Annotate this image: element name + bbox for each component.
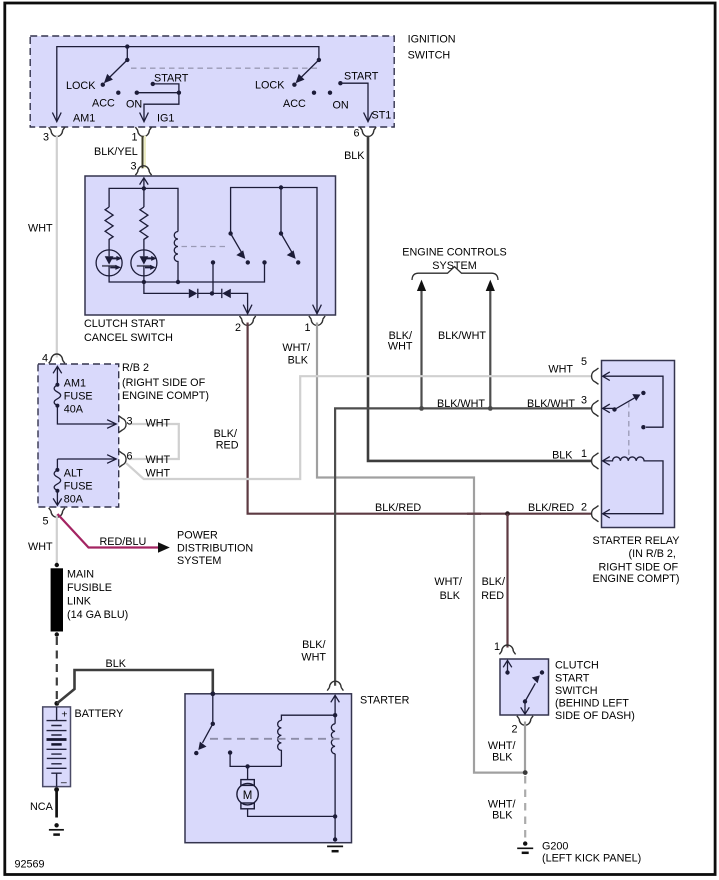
node LOCK contact left — [101, 83, 105, 87]
svg-text:G200: G200 — [542, 840, 568, 852]
node WHT/BLK junction — [523, 770, 528, 775]
wire AM1 feed and top bus — [57, 47, 319, 122]
wire START to ST1 — [340, 83, 368, 121]
svg-text:3: 3 — [127, 415, 133, 427]
node fusible link bottom — [55, 632, 59, 636]
wire top-right bus of clutch cancel — [231, 188, 317, 314]
wire battery negative to ground — [55, 790, 58, 818]
relay terminal 2 arrow — [603, 509, 610, 518]
svg-text:BATTERY: BATTERY — [75, 708, 124, 720]
wire stub to diode bus — [212, 262, 214, 293]
svg-text:6: 6 — [127, 450, 133, 462]
svg-text:4: 4 — [42, 352, 48, 364]
arrowhead right arm — [296, 74, 305, 83]
wire BLK battery to starter — [57, 670, 213, 703]
arrow right terminal 6 R/B2 — [107, 455, 116, 464]
arrow ST1 down — [364, 113, 373, 122]
svg-text:RED/BLU: RED/BLU — [100, 536, 147, 548]
svg-text:WHT: WHT — [301, 651, 326, 663]
svg-text:1: 1 — [494, 641, 500, 653]
svg-text:RED: RED — [216, 440, 239, 452]
switch arm left (to LOCK) — [109, 60, 128, 79]
node motor junction — [245, 764, 249, 768]
switch1 arm — [231, 234, 242, 253]
wire pivot drop left switch — [126, 47, 128, 60]
node relay contact upper — [641, 391, 645, 395]
LED 1 circle — [96, 250, 122, 276]
LED 2 light arrows — [145, 258, 152, 267]
relay terminal 5 cup — [592, 368, 599, 384]
svg-text:BLK: BLK — [492, 810, 513, 822]
svg-text:LOCK: LOCK — [255, 80, 285, 92]
arrow up engine controls left — [417, 280, 426, 291]
node START left — [151, 82, 155, 86]
wire top horizontal to pull-in coil — [281, 715, 335, 720]
svg-text:BLK/YEL: BLK/YEL — [94, 146, 138, 158]
clutch start switch terminal 1 cup — [499, 645, 515, 654]
wire BLK/RED from clutch cancel term2 to relay term2 — [248, 323, 592, 514]
svg-text:IG1: IG1 — [157, 113, 174, 125]
svg-text:(RIGHT SIDE OF: (RIGHT SIDE OF — [122, 377, 206, 389]
svg-text:3: 3 — [43, 132, 49, 144]
svg-text:BLK/RED: BLK/RED — [528, 502, 574, 514]
node BLK/WHT right junction — [488, 406, 493, 411]
svg-text:(14 GA BLU): (14 GA BLU) — [67, 609, 128, 621]
motor brush top — [241, 780, 254, 786]
svg-text:92569: 92569 — [15, 859, 45, 871]
svg-text:R/B 2: R/B 2 — [122, 362, 149, 374]
node pivot left — [125, 58, 129, 62]
bus lower (LED commons) — [109, 262, 264, 282]
relay coil — [603, 457, 663, 514]
motor feed — [247, 766, 249, 779]
svg-text:WHT: WHT — [388, 340, 413, 352]
starter box — [185, 694, 352, 843]
wire RED/BLU to power distribution — [58, 514, 159, 548]
relay terminal 1 arrow — [603, 457, 610, 466]
battery box — [43, 707, 71, 787]
starter switch arm — [203, 724, 213, 743]
fuse AM1 element — [55, 383, 59, 387]
resistor R center zigzag — [140, 207, 148, 250]
svg-text:SWITCH: SWITCH — [555, 685, 598, 697]
terminal 3 ignition cup — [49, 127, 65, 136]
svg-text:BLK: BLK — [552, 449, 573, 461]
svg-text:IGNITION: IGNITION — [408, 33, 456, 45]
svg-text:ST1: ST1 — [372, 110, 392, 122]
svg-text:2: 2 — [511, 724, 517, 736]
svg-text:ACC: ACC — [92, 98, 115, 110]
svg-text:3: 3 — [130, 161, 136, 173]
wire AM1 fuse to terminal 3 — [57, 406, 115, 424]
brace engine controls — [412, 267, 498, 280]
terminal 6 R/B2 cup — [119, 451, 126, 467]
wire WHT/BLK from clutch cancel term1 — [317, 323, 523, 773]
arrow up inside R/B2 — [53, 366, 62, 384]
arrowhead starter arm — [198, 742, 206, 750]
motor M circle — [237, 784, 258, 805]
wire starter switch feed — [212, 694, 214, 724]
svg-text:BLK/: BLK/ — [214, 428, 237, 440]
node battery negative — [54, 787, 59, 792]
wire diode bus — [144, 282, 248, 313]
node switch2 contact — [296, 260, 300, 264]
node ON junction — [177, 91, 181, 95]
node BLK/WHT left junction — [419, 406, 424, 411]
clutch start switch terminal 2 cup — [517, 716, 533, 725]
node starter top junction — [333, 713, 337, 717]
svg-text:BLK/WHT: BLK/WHT — [438, 330, 486, 342]
wire drop to switch2 pivot — [280, 188, 282, 234]
svg-text:SIDE OF DASH): SIDE OF DASH) — [555, 710, 635, 722]
switch arm right (to LOCK) — [300, 60, 319, 79]
terminal 1 ignition cup — [135, 127, 151, 136]
starter hold-in coil — [331, 724, 335, 754]
svg-text:BLK/RED: BLK/RED — [375, 502, 421, 514]
node clutch start contact upper — [540, 670, 544, 674]
terminal 3 clutch start cancel switch cup — [135, 166, 151, 175]
battery plates — [56, 707, 58, 787]
relay terminal 5 arrow — [603, 372, 610, 381]
node starter bottom junction — [333, 814, 337, 818]
mechanical link relay — [628, 402, 630, 456]
svg-text:CLUTCH: CLUTCH — [555, 660, 599, 672]
wire WHT jumper term3-term6 — [129, 424, 179, 459]
svg-text:MAIN: MAIN — [67, 569, 94, 581]
arrow power distribution — [158, 542, 170, 553]
svg-text:BLK/WHT: BLK/WHT — [527, 398, 575, 410]
node switch1 contact — [246, 260, 250, 264]
arrow terminal 1 down — [313, 305, 322, 314]
svg-text:START: START — [555, 672, 590, 684]
wire BLK/RED branch to clutch start switch — [506, 514, 508, 648]
svg-text:RIGHT SIDE OF: RIGHT SIDE OF — [599, 561, 679, 573]
svg-text:1: 1 — [304, 322, 310, 334]
node throw left stub — [211, 260, 215, 264]
node ACC left — [116, 91, 120, 95]
coil clutch cancel — [174, 232, 178, 283]
node ON right — [328, 91, 332, 95]
wire BLK/RED overlay at crossing — [467, 513, 481, 515]
terminal 2 clutch cancel cup — [240, 316, 256, 325]
node switch2 pivot — [279, 231, 283, 235]
node center top junction — [142, 186, 146, 190]
wire BLK/YEL dark part — [142, 136, 144, 169]
wire ALT fuse top to terminal 6 — [57, 458, 115, 460]
svg-text:2: 2 — [581, 502, 587, 514]
starter main vertical — [334, 695, 336, 841]
node top-right bus junction — [279, 185, 283, 189]
motor brush bottom — [241, 803, 254, 809]
svg-text:SWITCH: SWITCH — [408, 49, 451, 61]
svg-text:5: 5 — [42, 516, 48, 528]
wire BLK from ST1 to relay terminal 1 — [368, 136, 592, 461]
wire center drop to R2 — [143, 188, 145, 207]
svg-text:DISTRIBUTION: DISTRIBUTION — [177, 542, 253, 554]
node pivot right — [317, 58, 321, 62]
arrow up inside clutch start switch — [503, 660, 512, 672]
node battery positive junction — [54, 701, 59, 706]
svg-text:+: + — [61, 708, 67, 720]
wire ON to junction — [137, 92, 179, 94]
wire BLK/YEL pale part — [144, 136, 146, 169]
wire WHT net from jumper to relay term5 — [126, 376, 592, 479]
wire ALT fuse down + arrow — [53, 491, 62, 506]
node bus coil — [176, 280, 180, 284]
arrowhead left arm — [104, 74, 113, 83]
node fusible link top — [55, 563, 59, 567]
terminal 5 R/B2 cup — [49, 508, 65, 517]
node ACC right — [312, 91, 316, 95]
LED 1 internals — [105, 256, 114, 264]
svg-text:BLK: BLK — [106, 658, 127, 670]
svg-text:(LEFT KICK PANEL): (LEFT KICK PANEL) — [542, 853, 641, 865]
svg-text:LOCK: LOCK — [66, 80, 96, 92]
node clutch start pivot — [523, 699, 527, 703]
svg-text:BLK/WHT: BLK/WHT — [437, 398, 485, 410]
relay terminal 2 cup — [592, 506, 599, 522]
diode D1 (points right) — [189, 289, 198, 298]
wire top-left bus of clutch cancel — [109, 188, 178, 231]
svg-text:START: START — [154, 73, 189, 85]
svg-text:ENGINE CONTROLS: ENGINE CONTROLS — [402, 247, 506, 259]
relay terminal 5 wire inside — [603, 376, 663, 427]
svg-text:3: 3 — [581, 395, 587, 407]
svg-text:BLK: BLK — [344, 150, 365, 162]
arrow right terminal 3 R/B2 — [107, 420, 116, 429]
starter relay box — [602, 361, 675, 528]
arrowhead switch1 arm — [236, 250, 245, 259]
svg-text:ON: ON — [333, 100, 349, 112]
wire START to IG1 — [144, 84, 179, 121]
starter pull-in coil — [278, 720, 282, 766]
svg-text:BLK: BLK — [288, 355, 309, 367]
wire WHT term5 down to fusible link — [56, 515, 58, 566]
ground starter — [333, 837, 337, 841]
svg-text:ALT: ALT — [64, 467, 83, 479]
svg-text:6: 6 — [353, 128, 359, 140]
node clutch start fixed contact feed — [505, 670, 509, 674]
svg-text:NCA: NCA — [30, 801, 54, 813]
wire contact to motor bus — [230, 753, 281, 767]
ground battery — [54, 823, 58, 827]
wire WHT/BLK term2 down — [524, 722, 526, 773]
svg-text:ENGINE COMPT): ENGINE COMPT) — [593, 573, 680, 585]
svg-text:STARTER: STARTER — [360, 695, 410, 707]
svg-text:40A: 40A — [64, 404, 84, 416]
mechanical link starter — [210, 738, 341, 740]
relay terminal 1 cup — [592, 453, 599, 469]
node BLK/RED junction — [505, 511, 510, 516]
node relay pivot — [612, 407, 616, 411]
arrow IG1 down — [140, 113, 149, 122]
LED 2 internals — [140, 256, 149, 264]
svg-text:AM1: AM1 — [73, 113, 95, 125]
LED 1 light arrows — [110, 258, 117, 267]
svg-text:BLK: BLK — [440, 590, 461, 602]
R/B 2 box — [38, 364, 119, 507]
svg-text:ON: ON — [126, 99, 142, 111]
svg-text:1: 1 — [581, 448, 587, 460]
node BLK entry starter — [210, 691, 215, 696]
node diode bus center — [210, 291, 214, 295]
svg-text:CLUTCH START: CLUTCH START — [84, 318, 166, 330]
terminal 4 R/B2 cup — [49, 354, 65, 363]
svg-text:ENGINE COMPT): ENGINE COMPT) — [122, 390, 209, 402]
node bus LED2 — [142, 280, 146, 284]
svg-text:(IN R/B 2,: (IN R/B 2, — [629, 548, 676, 560]
node starter contact left — [194, 751, 198, 755]
svg-text:STARTER RELAY: STARTER RELAY — [593, 535, 680, 547]
switch2 arm — [281, 234, 292, 253]
arrow up engine controls right — [486, 280, 495, 291]
diode D2 (points left) — [222, 289, 231, 298]
relay terminal 3 wire — [603, 407, 613, 409]
svg-text:WHT: WHT — [548, 364, 573, 376]
ignition switch box — [30, 36, 394, 127]
svg-text:WHT: WHT — [28, 541, 53, 553]
svg-text:BLK: BLK — [492, 752, 513, 764]
arrow down exit clutch start switch — [521, 702, 530, 715]
node START right — [338, 81, 342, 85]
arrow up inside starter — [331, 695, 340, 702]
wire dashed fusible link to battery — [56, 637, 58, 701]
arrowhead switch2 arm — [287, 250, 296, 259]
wire BLK/WHT right up-branch — [489, 291, 491, 408]
fuse ALT element — [56, 459, 58, 470]
wire BLK/WHT main horizontal and starter drop — [335, 408, 592, 685]
svg-text:FUSIBLE: FUSIBLE — [67, 582, 112, 594]
svg-text:M: M — [243, 790, 253, 802]
svg-text:–: – — [61, 777, 67, 789]
clutch start switch box — [500, 659, 549, 715]
svg-text:POWER: POWER — [177, 530, 218, 542]
svg-text:1: 1 — [131, 132, 137, 144]
relay switch arm — [615, 398, 635, 410]
clutch start switch arm — [525, 683, 535, 701]
terminal 6 ignition cup — [360, 127, 376, 136]
node top bus junction — [125, 44, 129, 48]
svg-text:WHT: WHT — [146, 418, 171, 430]
node starter switch pivot — [211, 722, 215, 726]
svg-text:AM1: AM1 — [64, 378, 86, 390]
node ON left — [135, 91, 139, 95]
svg-text:80A: 80A — [64, 493, 84, 505]
arrow terminal 2 down — [243, 305, 252, 314]
relay terminal 3 cup — [592, 400, 599, 416]
wire BLK/WHT left up-branch — [420, 291, 422, 408]
svg-text:WHT/: WHT/ — [434, 576, 462, 588]
svg-text:2: 2 — [235, 322, 241, 334]
node bus1 end contact — [262, 260, 266, 264]
svg-text:ACC: ACC — [283, 98, 306, 110]
resistor R left zigzag — [105, 207, 113, 250]
wire WHT ignition AM1 down to R/B2 — [56, 136, 58, 358]
clutch start cancel switch box — [85, 176, 336, 315]
svg-text:(BEHIND LEFT: (BEHIND LEFT — [555, 698, 629, 710]
arrow AM1 down — [52, 113, 61, 122]
svg-text:SYSTEM: SYSTEM — [177, 555, 221, 567]
svg-text:BLK/: BLK/ — [302, 639, 325, 651]
svg-text:WHT: WHT — [146, 454, 171, 466]
mechanical link coil to switch1 — [182, 246, 228, 248]
arrowhead relay arm — [632, 394, 640, 401]
svg-text:WHT: WHT — [28, 223, 53, 235]
node switch1 pivot — [228, 231, 232, 235]
terminal 3 R/B2 cup — [119, 416, 126, 432]
svg-text:5: 5 — [581, 356, 587, 368]
svg-text:BLK/: BLK/ — [482, 576, 505, 588]
starter terminal cup — [327, 681, 343, 690]
svg-text:WHT: WHT — [146, 468, 171, 480]
svg-text:FUSE: FUSE — [64, 480, 93, 492]
arrowhead clutch start arm — [532, 675, 540, 683]
main fusible link — [51, 568, 63, 631]
LED 2 circle — [131, 250, 157, 276]
svg-text:WHT/: WHT/ — [282, 342, 310, 354]
svg-text:CANCEL SWITCH: CANCEL SWITCH — [84, 332, 173, 344]
mechanical link dashed inside ignition — [131, 67, 317, 69]
svg-text:FUSE: FUSE — [64, 391, 93, 403]
svg-text:RED: RED — [481, 590, 504, 602]
ground G200 — [523, 841, 527, 845]
node starter contact right — [228, 750, 232, 754]
wire WHT/BLK dashed to G200 — [524, 776, 526, 838]
svg-text:START: START — [344, 71, 379, 83]
node relay contact lower — [641, 425, 645, 429]
node LOCK contact right — [292, 83, 296, 87]
relay terminal 3 arrow — [603, 404, 610, 413]
terminal 1 clutch cancel cup — [309, 316, 325, 325]
svg-text:LINK: LINK — [67, 596, 92, 608]
arrow entry up inside clutch cancel — [140, 178, 149, 189]
svg-text:WHT/: WHT/ — [488, 740, 516, 752]
motor to main vertical — [248, 809, 336, 817]
